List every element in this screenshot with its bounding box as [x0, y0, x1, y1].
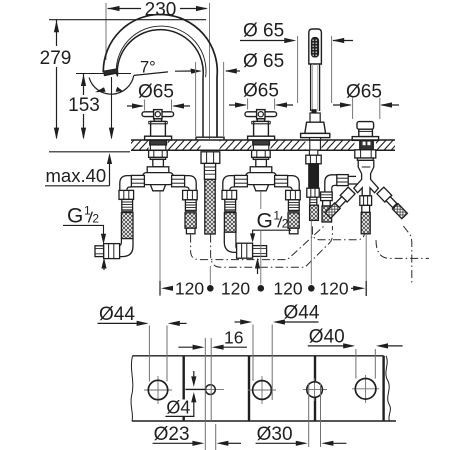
valve2 stem — [257, 119, 264, 122]
dimension 230 arrow left — [108, 6, 120, 11]
extension line 230 left (spout outlet) — [105, 3, 107, 60]
svg-text:max.40: max.40 — [46, 165, 107, 186]
valve1 T body — [147, 167, 169, 173]
valve2 left threaded adapter — [225, 199, 236, 211]
dimension 279 arrow down — [54, 128, 59, 140]
valve2 right threaded adapter — [288, 200, 299, 211]
thin centerlines down to 120 row — [160, 191, 366, 296]
valve1 left threaded adapter — [122, 199, 133, 211]
valve1 left braided hose — [121, 213, 133, 239]
svg-text:Ø40: Ø40 — [309, 327, 345, 348]
plan hole 1 dia44 — [148, 380, 167, 399]
diverter flange nut — [355, 150, 376, 158]
plan joint line 2 — [248, 356, 250, 421]
spout escutcheon — [196, 137, 224, 140]
routing centerline diverter right branch down — [403, 226, 411, 285]
valve1 stem below — [153, 159, 164, 166]
diverter right diagonal hose — [377, 187, 408, 219]
svg-text:Ø30: Ø30 — [257, 424, 293, 445]
valve2 right elbow — [288, 176, 300, 191]
svg-text:G: G — [67, 205, 83, 228]
G half inch pipe left — [95, 246, 104, 257]
svg-text:16: 16 — [224, 328, 243, 348]
hose to elbow joint — [120, 239, 133, 257]
plan joint line 4 — [382, 356, 384, 421]
valve2 right hex nut — [286, 190, 301, 199]
dimension 230 arrow right — [196, 6, 208, 11]
dimension 153 line — [83, 74, 85, 95]
spout hose crimp — [204, 163, 215, 179]
dim 16 label — [178, 328, 247, 350]
diverter center braided hose — [361, 212, 370, 233]
svg-text:G: G — [257, 209, 273, 232]
valve2 right braided hose — [288, 213, 299, 228]
TOP-SECTION — [191, 224, 429, 284]
routing centerline valve1 to diverter left branch — [191, 224, 326, 259]
valve1 right port nut — [172, 175, 185, 186]
reference line y73.5 — [76, 73, 131, 75]
valve1 escutcheon flange — [145, 136, 172, 140]
diverter escutcheon flange — [352, 137, 378, 141]
svg-text:Ø 65: Ø 65 — [243, 21, 284, 42]
valve2 escutcheon flange — [248, 136, 275, 140]
dia44 label 1 — [98, 304, 187, 326]
diverter center hose nut — [360, 196, 372, 206]
G half inch elbow hex nut right — [237, 243, 253, 258]
svg-text:7°: 7° — [140, 59, 156, 77]
diverter knob — [357, 122, 374, 130]
svg-text:2: 2 — [92, 212, 99, 226]
handshower holder section — [310, 113, 320, 122]
routing centerline handshower to diverter center — [312, 226, 364, 239]
valve2 hose to right-facing elbow — [224, 232, 236, 252]
svg-text:1: 1 — [84, 204, 91, 218]
valve2 body — [254, 121, 269, 136]
valve2 left braided hose — [224, 213, 236, 233]
svg-text:279: 279 — [40, 48, 72, 69]
dia4 slot line — [185, 388, 205, 390]
plan hole 4 dia30 — [307, 382, 323, 398]
valve2 right port nut — [275, 175, 288, 186]
valve2 right hose end cap — [289, 228, 298, 234]
valve2 cross handle — [245, 112, 277, 117]
valve2 stem below — [256, 159, 267, 166]
dimension 230 line — [108, 8, 142, 10]
valve1 left port nut — [131, 175, 144, 186]
valve1 left hex nut — [119, 190, 134, 199]
G 1/2 label right — [257, 208, 289, 232]
svg-text:Ø44: Ø44 — [284, 303, 320, 324]
plan joint line 1 — [182, 356, 184, 421]
dia4 label and arrows — [164, 400, 191, 417]
plan view deck band — [131, 356, 396, 421]
plan joint line 3 — [314, 356, 316, 381]
spout outlet aerator — [104, 69, 118, 76]
valve1 shank nut — [149, 150, 168, 157]
dimension chain 120 — [160, 279, 366, 299]
svg-text:120: 120 — [319, 279, 348, 299]
spout braided hose — [205, 179, 215, 234]
plan pilot hole dia23 — [206, 385, 216, 395]
valve2 left port nut — [234, 175, 247, 186]
diverter in-deck — [360, 140, 373, 149]
deck hatched band — [124, 139, 401, 151]
valve1 right threaded adapter — [185, 200, 196, 211]
routing centerline valve2 right hose — [211, 226, 333, 267]
handshower shank below deck — [309, 150, 317, 155]
svg-text:230: 230 — [145, 0, 177, 20]
dia44 label 2 — [235, 303, 320, 325]
valve2 left hex nut — [222, 190, 237, 199]
valve1 in-deck — [150, 140, 167, 145]
spout inner arc — [117, 30, 203, 137]
dimension 279 line — [56, 20, 58, 46]
valve1 left elbow — [120, 176, 132, 191]
handshower head — [309, 29, 322, 64]
spout shank nut — [201, 152, 220, 164]
reference line top y19.5 — [49, 19, 206, 21]
diverter left port hex — [337, 175, 348, 186]
valve2 T body — [250, 167, 272, 173]
valve1 body — [151, 121, 166, 136]
handshower threaded rod — [309, 164, 319, 188]
7 degree leader line (tilted) — [134, 72, 168, 76]
valve2 shank nut — [252, 150, 271, 157]
dimension 153 arrow down — [81, 128, 86, 140]
diverter left elbow hose crimp — [321, 192, 333, 201]
handshower hose adapter — [310, 197, 317, 205]
handshower cone escutcheon — [305, 122, 326, 133]
diverter left elbow braided hose — [322, 206, 332, 222]
routing centerline right horizontal — [376, 240, 429, 258]
svg-text:Ø23: Ø23 — [154, 424, 190, 445]
svg-text:Ø44: Ø44 — [99, 304, 135, 325]
svg-text:Ø4: Ø4 — [166, 397, 190, 417]
svg-text:120: 120 — [221, 279, 250, 299]
valve1 right hex nut — [183, 190, 198, 199]
svg-text:Ø65: Ø65 — [243, 81, 279, 102]
dia40 label — [308, 327, 403, 349]
dimension 279 arrow up — [54, 20, 59, 32]
valve1 right braided hose — [185, 213, 196, 228]
plan hole 3 dia44 — [253, 381, 272, 400]
svg-text:Ø65: Ø65 — [138, 82, 174, 103]
svg-text:Ø 65: Ø 65 — [243, 51, 284, 72]
valve1 right hose end cap — [186, 228, 195, 234]
valve2 in-deck — [253, 140, 270, 145]
dimension 153 arrow up — [81, 74, 86, 86]
handshower extension lines — [297, 36, 299, 103]
valve1 stem — [154, 119, 161, 122]
handshower in-deck — [310, 140, 321, 150]
angle arc 7deg — [89, 75, 134, 94]
G half inch elbow hex nut left — [104, 244, 120, 259]
spout outer arc — [103, 14, 217, 136]
svg-text:153: 153 — [68, 95, 100, 116]
handshower hose nut — [307, 188, 319, 197]
svg-text:1: 1 — [273, 208, 280, 222]
dia23 label — [153, 424, 241, 446]
svg-text:2: 2 — [282, 216, 289, 230]
diverter body — [354, 160, 379, 195]
valve2 left elbow — [223, 176, 235, 191]
diverter left diagonal hose — [324, 187, 355, 218]
G half inch pipe right — [253, 246, 267, 257]
svg-text:120: 120 — [175, 279, 204, 299]
centerline spout column — [209, 3, 211, 139]
plan deck right break line — [386, 356, 391, 421]
svg-text:Ø65: Ø65 — [346, 82, 382, 103]
deck bottom extension line — [49, 151, 130, 153]
valve1 right elbow — [185, 176, 197, 191]
valve1 cross handle — [142, 112, 174, 117]
diverter left elbow — [325, 175, 337, 192]
spout accent arc — [116, 26, 206, 77]
plan hole 5 dia40 — [355, 379, 376, 400]
G 1/2 label left — [67, 204, 99, 228]
outlet centerline with arrow to deck — [111, 77, 113, 138]
plan extension lines vertical — [149, 325, 375, 450]
spout base extension lines — [195, 62, 197, 136]
handshower braided hose — [310, 205, 319, 220]
handshower handle — [311, 64, 320, 111]
plan deck left break line — [131, 356, 133, 421]
svg-text:120: 120 — [273, 279, 302, 299]
plan centerline crosses — [144, 375, 379, 404]
dia30 label — [256, 424, 347, 446]
